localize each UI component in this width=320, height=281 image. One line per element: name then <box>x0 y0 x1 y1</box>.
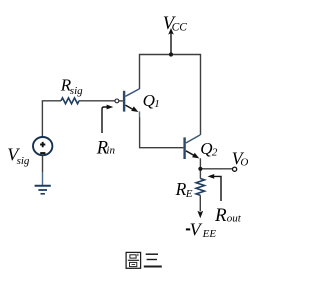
svg-text:O: O <box>240 157 248 169</box>
svg-text:Q: Q <box>143 91 155 110</box>
svg-text:R: R <box>214 205 227 226</box>
svg-text:V: V <box>190 220 203 240</box>
svg-text:EE: EE <box>202 228 217 240</box>
svg-text:in: in <box>106 144 115 156</box>
svg-text:1: 1 <box>154 98 160 110</box>
svg-text:R: R <box>175 179 187 199</box>
svg-text:Q: Q <box>200 139 212 158</box>
svg-text:CC: CC <box>172 22 188 34</box>
svg-text:sig: sig <box>17 155 30 167</box>
svg-text:out: out <box>227 212 242 224</box>
svg-text:E: E <box>185 188 193 200</box>
svg-text:sig: sig <box>70 85 83 97</box>
svg-text:2: 2 <box>212 146 218 158</box>
